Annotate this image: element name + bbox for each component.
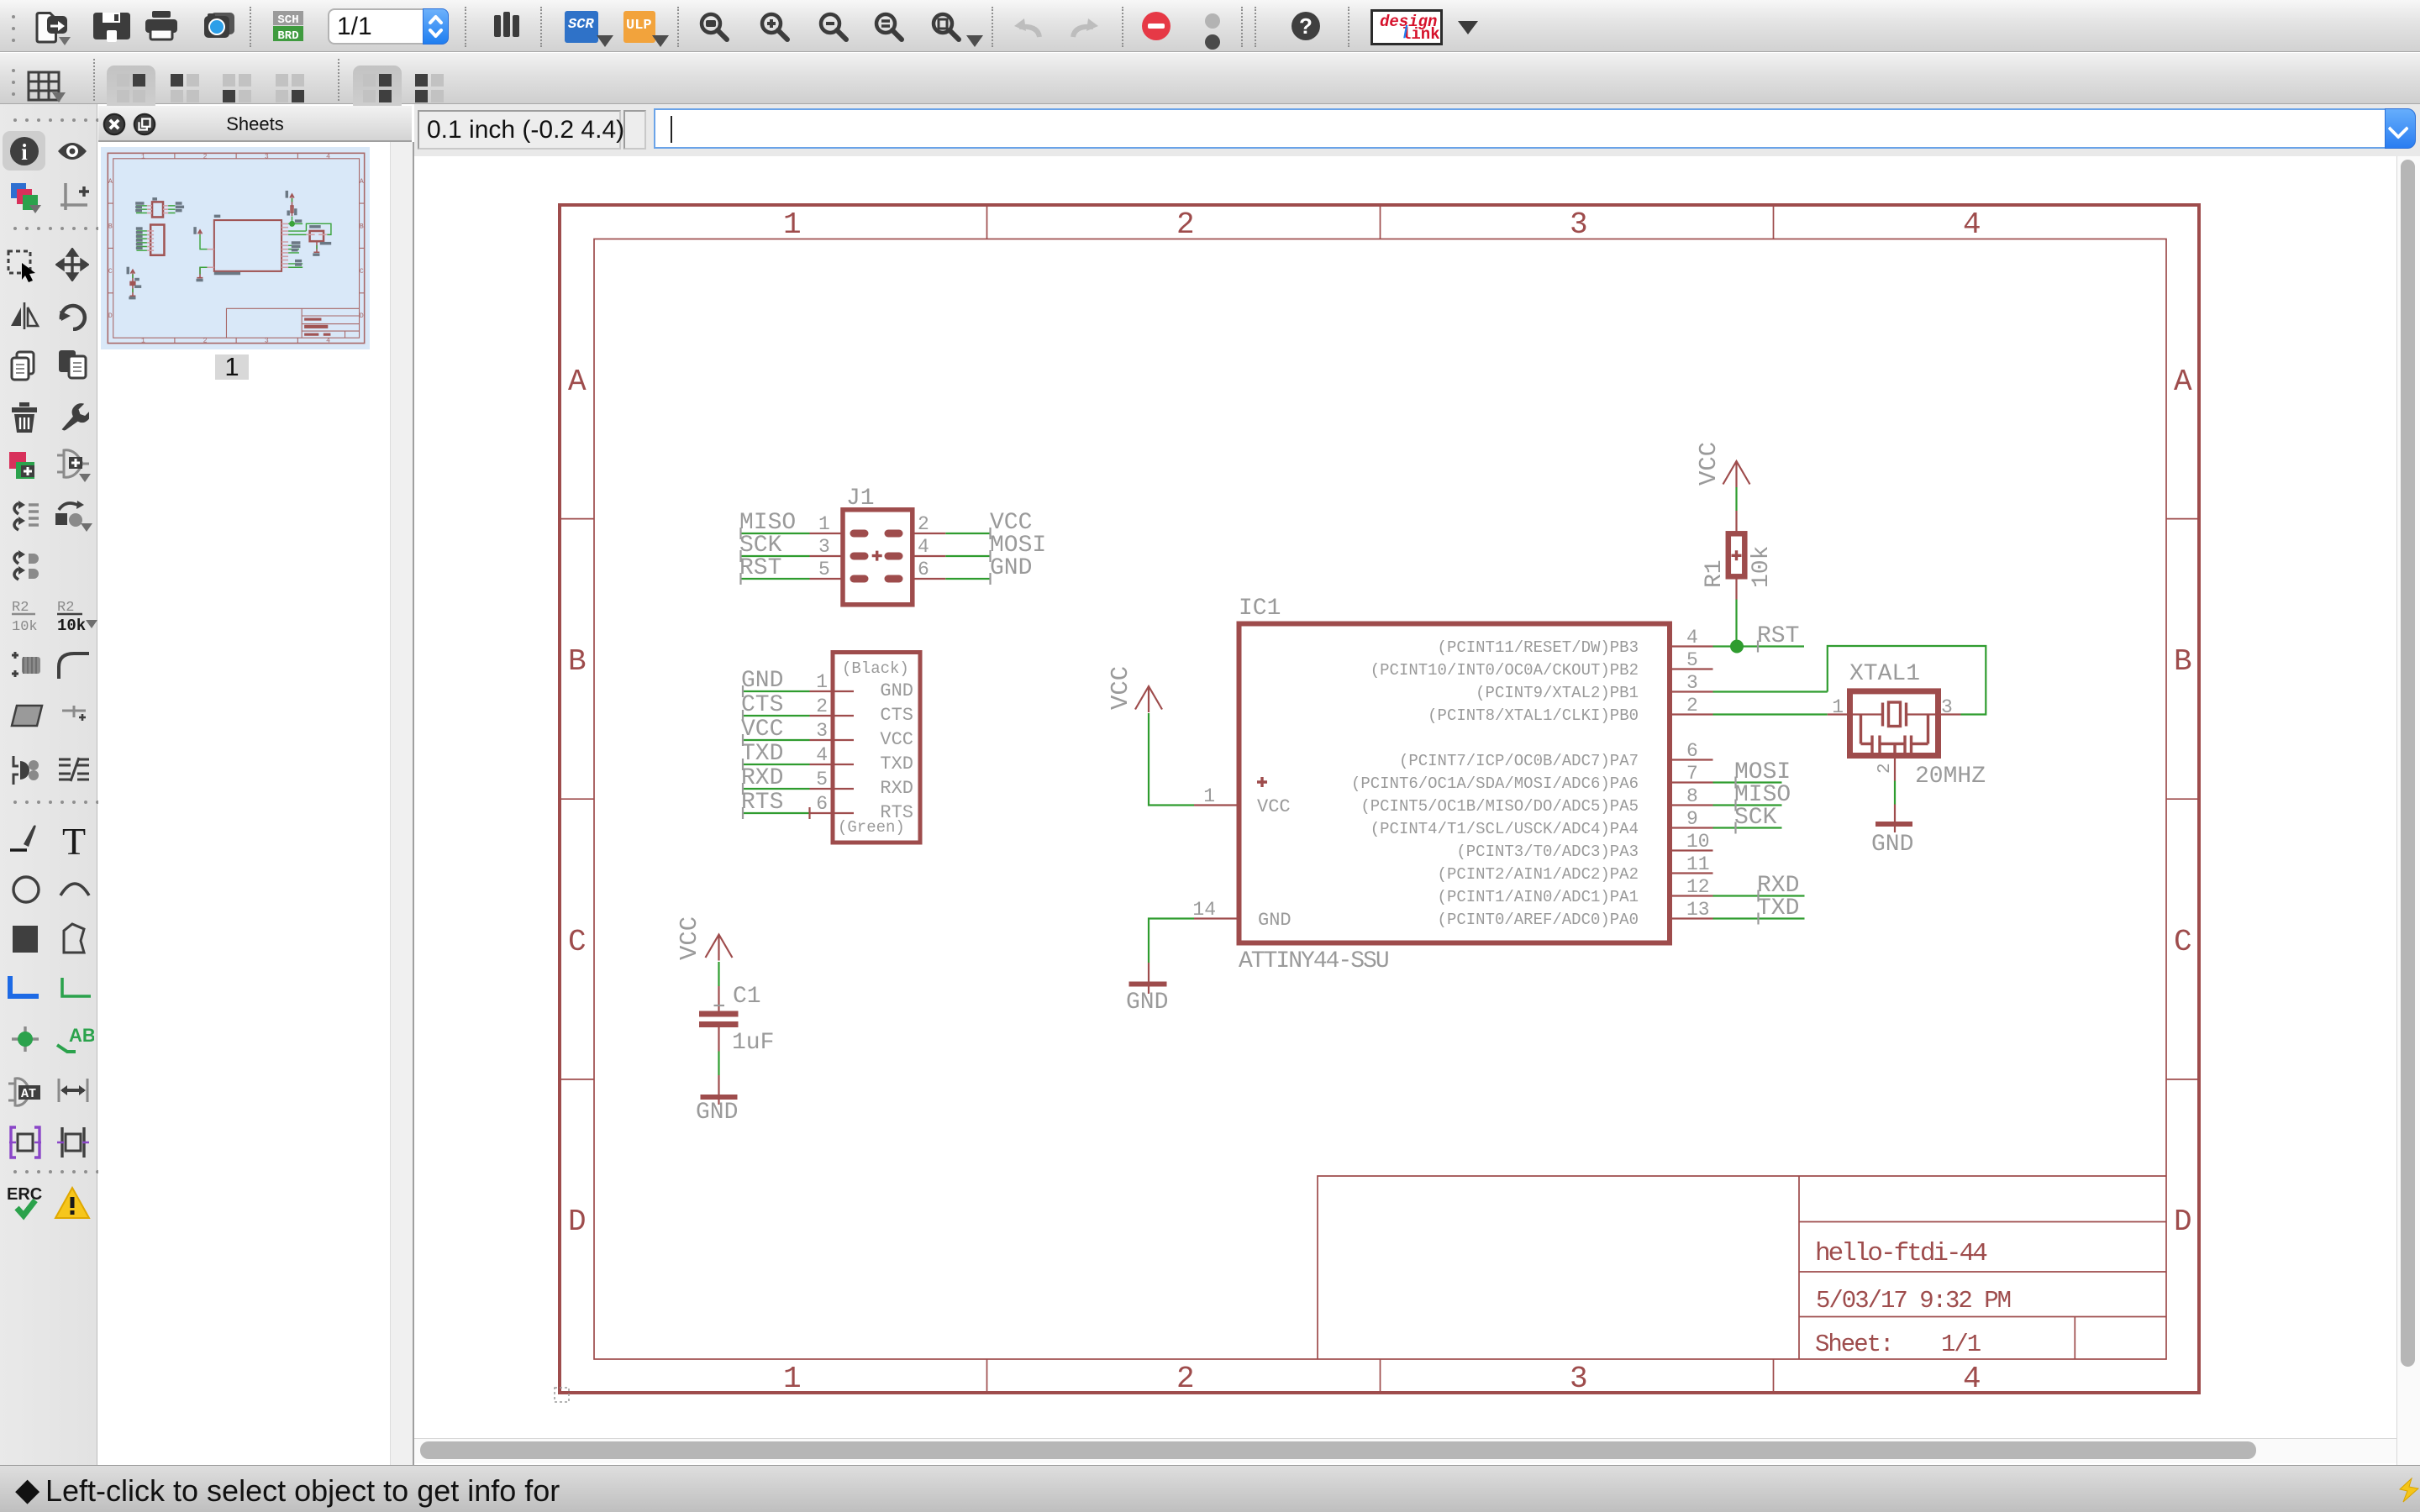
svg-text:20MHZ: 20MHZ xyxy=(1915,764,1986,790)
svg-text:(PCINT5/OC1B/MISO/DO/ADC5)PA5: (PCINT5/OC1B/MISO/DO/ADC5)PA5 xyxy=(1360,797,1639,816)
svg-text:1: 1 xyxy=(818,513,830,535)
svg-text:14: 14 xyxy=(1192,899,1216,921)
svg-text:(PCINT7/ICP/OC0B/ADC7)PA7: (PCINT7/ICP/OC0B/ADC7)PA7 xyxy=(1399,752,1639,770)
svg-text:3: 3 xyxy=(818,536,830,558)
svg-text:(PCINT0/AREF/ADC0)PA0: (PCINT0/AREF/ADC0)PA0 xyxy=(1438,911,1639,929)
svg-text:GND: GND xyxy=(880,680,913,701)
svg-text:1uF: 1uF xyxy=(732,1030,774,1056)
svg-text:6: 6 xyxy=(1686,740,1698,762)
svg-text:(PCINT6/OC1A/SDA/MOSI/ADC6)PA6: (PCINT6/OC1A/SDA/MOSI/ADC6)PA6 xyxy=(1351,774,1639,793)
svg-text:GND: GND xyxy=(741,668,783,694)
svg-text:C: C xyxy=(108,268,113,276)
svg-text:1: 1 xyxy=(1203,785,1215,807)
svg-text:RST: RST xyxy=(1757,623,1799,649)
svg-text:5: 5 xyxy=(818,559,830,580)
svg-text:12: 12 xyxy=(1686,876,1710,898)
svg-text:(PCINT2/AIN1/ADC2)PA2: (PCINT2/AIN1/ADC2)PA2 xyxy=(1438,865,1639,884)
svg-text:B: B xyxy=(568,644,587,679)
svg-text:(PCINT3/T0/ADC3)PA3: (PCINT3/T0/ADC3)PA3 xyxy=(1456,843,1639,861)
svg-text:2: 2 xyxy=(1176,207,1195,242)
svg-text:D: D xyxy=(108,312,113,320)
svg-text:(PCINT10/INT0/OC0A/CKOUT)PB2: (PCINT10/INT0/OC0A/CKOUT)PB2 xyxy=(1370,661,1639,680)
svg-text:CTS: CTS xyxy=(880,705,913,726)
svg-text:VCC: VCC xyxy=(741,717,783,743)
svg-text:D: D xyxy=(2174,1205,2192,1239)
svg-text:10k: 10k xyxy=(57,617,86,633)
svg-text:SCH: SCH xyxy=(277,13,298,27)
svg-text:GND: GND xyxy=(1126,990,1168,1016)
svg-text:4: 4 xyxy=(326,153,330,160)
svg-text:1/1: 1/1 xyxy=(1941,1331,1981,1358)
svg-text:R1: R1 xyxy=(1702,559,1728,588)
svg-text:VCC: VCC xyxy=(1107,666,1134,710)
svg-text:TXD: TXD xyxy=(880,753,913,774)
svg-text:(PCINT11/RESET/DW)PB3: (PCINT11/RESET/DW)PB3 xyxy=(1438,638,1639,657)
svg-text:RXD: RXD xyxy=(741,765,783,791)
svg-text:(PCINT8/XTAL1/CLKI)PB0: (PCINT8/XTAL1/CLKI)PB0 xyxy=(1428,706,1639,725)
svg-text:VCC: VCC xyxy=(676,916,703,960)
svg-text:5/03/17 9:32 PM: 5/03/17 9:32 PM xyxy=(1816,1287,2011,1315)
svg-text:1: 1 xyxy=(783,1362,802,1396)
svg-text:B: B xyxy=(360,223,364,230)
svg-text:A: A xyxy=(2174,365,2192,399)
svg-text:VCC: VCC xyxy=(1257,796,1291,817)
svg-text:10k: 10k xyxy=(1749,546,1775,588)
svg-text:C1: C1 xyxy=(733,984,761,1010)
svg-text:GND: GND xyxy=(696,1100,738,1126)
svg-text:1: 1 xyxy=(1832,696,1844,718)
svg-text:4: 4 xyxy=(1686,627,1698,648)
svg-text:7: 7 xyxy=(1686,763,1698,785)
svg-text:RXD: RXD xyxy=(880,778,913,799)
svg-text:6: 6 xyxy=(816,793,828,815)
svg-text:BRD: BRD xyxy=(277,29,298,41)
svg-text:C: C xyxy=(568,925,587,959)
svg-text:2: 2 xyxy=(918,513,929,535)
svg-text:3: 3 xyxy=(816,720,828,742)
svg-text:(PCINT4/T1/SCL/USCK/ADC4)PA4: (PCINT4/T1/SCL/USCK/ADC4)PA4 xyxy=(1370,820,1639,838)
svg-text:ATTINY44-SSU: ATTINY44-SSU xyxy=(1239,948,1388,974)
svg-text:3: 3 xyxy=(1686,672,1698,694)
svg-text:10k: 10k xyxy=(12,619,38,633)
svg-text:TXD: TXD xyxy=(1757,895,1799,921)
svg-text:4: 4 xyxy=(816,744,828,766)
svg-text:GND: GND xyxy=(990,555,1032,581)
svg-text:2: 2 xyxy=(1875,763,1895,774)
svg-text:A: A xyxy=(568,365,587,399)
svg-text:3: 3 xyxy=(265,153,269,160)
svg-text:6: 6 xyxy=(918,559,929,580)
svg-text:GND: GND xyxy=(1258,910,1292,931)
svg-text:1: 1 xyxy=(816,671,828,693)
svg-text:2: 2 xyxy=(203,338,208,345)
svg-text:4: 4 xyxy=(326,338,330,345)
svg-text:TXD: TXD xyxy=(741,741,783,767)
svg-text:9: 9 xyxy=(1686,808,1698,830)
svg-text:5: 5 xyxy=(1686,649,1698,671)
svg-text:(PCINT9/XTAL2)PB1: (PCINT9/XTAL2)PB1 xyxy=(1476,684,1639,702)
svg-text:RTS: RTS xyxy=(741,790,783,816)
svg-text:1: 1 xyxy=(141,153,145,160)
svg-text:RST: RST xyxy=(739,555,781,581)
svg-text:hello-ftdi-44: hello-ftdi-44 xyxy=(1815,1239,1987,1268)
svg-text:RTS: RTS xyxy=(880,802,913,823)
svg-text:5: 5 xyxy=(816,769,828,790)
svg-text:8: 8 xyxy=(1686,785,1698,807)
svg-text:CTS: CTS xyxy=(741,692,783,718)
svg-text:A: A xyxy=(360,178,364,186)
svg-text:C: C xyxy=(360,268,364,276)
svg-text:SCK: SCK xyxy=(1734,805,1777,831)
svg-text:GND: GND xyxy=(1871,832,1913,858)
svg-text:D: D xyxy=(568,1205,587,1239)
svg-text:VCC: VCC xyxy=(1695,442,1723,486)
svg-text:13: 13 xyxy=(1686,899,1710,921)
svg-text:4: 4 xyxy=(1963,1362,1981,1396)
svg-text:i: i xyxy=(21,139,28,165)
svg-text:3: 3 xyxy=(1941,696,1953,718)
svg-text:IC1: IC1 xyxy=(1239,596,1281,622)
svg-text:C: C xyxy=(2174,925,2192,959)
svg-text:11: 11 xyxy=(1686,853,1710,875)
svg-text:B: B xyxy=(2174,644,2192,679)
svg-text:4: 4 xyxy=(918,536,929,558)
svg-text:A: A xyxy=(108,178,113,186)
svg-text:1: 1 xyxy=(783,207,802,242)
svg-text:4: 4 xyxy=(1963,207,1981,242)
svg-text:2: 2 xyxy=(203,153,208,160)
svg-text:AT: AT xyxy=(21,1087,36,1101)
svg-text:3: 3 xyxy=(1570,1362,1588,1396)
svg-text:(Black): (Black) xyxy=(842,659,909,678)
svg-text:(PCINT1/AIN0/ADC1)PA1: (PCINT1/AIN0/ADC1)PA1 xyxy=(1438,888,1639,906)
svg-text:?: ? xyxy=(1299,13,1313,39)
svg-text:10: 10 xyxy=(1686,831,1710,853)
svg-text:2: 2 xyxy=(1176,1362,1195,1396)
svg-text:2: 2 xyxy=(816,696,828,717)
svg-text:D: D xyxy=(360,312,364,320)
svg-text:3: 3 xyxy=(1570,207,1588,242)
svg-text:VCC: VCC xyxy=(880,729,913,750)
svg-text:2: 2 xyxy=(1686,695,1698,717)
svg-text:Sheet:: Sheet: xyxy=(1815,1331,1892,1358)
svg-text:ERC: ERC xyxy=(7,1185,42,1204)
svg-text:3: 3 xyxy=(265,338,269,345)
svg-text:B: B xyxy=(108,223,113,230)
svg-text:1: 1 xyxy=(141,338,145,345)
svg-text:AB: AB xyxy=(69,1025,94,1046)
svg-text:XTAL1: XTAL1 xyxy=(1849,661,1920,687)
